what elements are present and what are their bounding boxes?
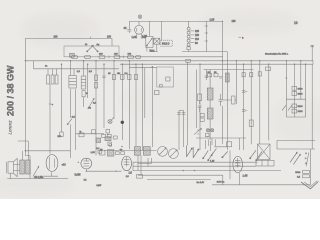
svg-text:Stromlaufplan Nr. 1905 a: Stromlaufplan Nr. 1905 a: [265, 53, 289, 56]
wire rectifier anode drop: [128, 21, 130, 29]
coil IFT2a: [134, 147, 140, 156]
wire column 142: [141, 64, 143, 150]
switch arm d2: [293, 154, 300, 164]
wire column 114: [113, 61, 115, 119]
capacitor bars col104: [102, 76, 105, 78]
svg-text:220: 220: [195, 30, 200, 33]
lamp pair L2: [211, 129, 214, 132]
wire column 96: [95, 61, 97, 156]
wire right terminal drop: [311, 64, 313, 149]
wire column 200: [199, 64, 201, 150]
svg-text:0,5V 2m: 0,5V 2m: [217, 181, 225, 183]
svg-text:0,1W: 0,1W: [97, 185, 102, 187]
svg-text:13: 13: [294, 21, 298, 25]
svg-text:5000: 5000: [298, 89, 304, 91]
lamp above rectifier: [138, 15, 141, 18]
wire column 152: [151, 67, 153, 147]
node dark junction: [121, 121, 124, 124]
wire osc tie: [179, 110, 184, 112]
resistor stack 200a: [200, 114, 204, 117]
wire column 286: [285, 61, 287, 117]
wire bottom L2: [133, 165, 256, 167]
wire column 206 sub: [205, 70, 208, 81]
wire switch feed a: [206, 140, 227, 151]
trimmer osc: [160, 84, 163, 87]
wire mid link: [86, 170, 121, 172]
wire right block top: [277, 139, 315, 141]
wire sub line 67: [129, 67, 157, 69]
wire column 56.5: [56, 69, 58, 75]
svg-text:2000: 2000: [298, 111, 304, 113]
wire switch stub: [147, 44, 157, 51]
wire column 243: [243, 64, 245, 150]
resistor R4: [51, 75, 54, 84]
transformer box Tr: [79, 130, 84, 136]
wire speaker links: [13, 165, 19, 171]
tube U1 rectifier: [135, 21, 144, 38]
lamp symbol X1: [108, 117, 114, 124]
switch pole arm p2: [193, 147, 199, 158]
switch arm band: [67, 119, 72, 125]
resistor col96 b: [94, 83, 97, 89]
resistor R5: [55, 75, 58, 84]
tick c1: [245, 91, 247, 110]
capacitor pair c1: [242, 91, 245, 93]
capacitor C40: [127, 30, 131, 34]
resistor row r2: [107, 134, 111, 137]
resistor row r3: [113, 136, 117, 139]
capacitor col259: [258, 72, 261, 76]
wire tube B bottom: [85, 169, 87, 171]
capacitor left IF: [198, 94, 202, 112]
wire left sub bus: [34, 61, 120, 69]
tuning gang C2: [169, 149, 179, 159]
resistor row r1: [102, 134, 106, 137]
tap 110V: [190, 38, 199, 41]
coil L2 antenna: [69, 76, 76, 89]
switch arm d1: [290, 152, 297, 162]
wire bottom L5: [147, 179, 211, 181]
svg-text:2000: 2000: [298, 94, 304, 96]
svg-text:4M: 4M: [117, 73, 120, 75]
resistor R500: [58, 132, 64, 138]
capacitor C small2: [108, 142, 111, 145]
switch arm b1: [222, 151, 228, 157]
wire heater drop: [205, 21, 209, 51]
wire top right terminal: [311, 45, 314, 61]
capacitor C IF: [219, 94, 223, 106]
potentiometer arrow P1: [84, 97, 95, 107]
resistor R6: [82, 91, 88, 97]
capacitor Cg: [219, 76, 222, 78]
switch arm c2: [256, 151, 262, 160]
transformer output Tr2: [20, 141, 30, 174]
capacitor c40: [108, 73, 116, 80]
wire ballast feed: [188, 21, 190, 27]
svg-text:100: 100: [107, 35, 112, 38]
fuse box F1: [154, 38, 160, 44]
wire mains switch feed: [148, 21, 150, 36]
switch arm c1: [250, 150, 256, 159]
svg-text:2m 2,4V: 2m 2,4V: [197, 182, 205, 184]
coil L3: [81, 76, 86, 89]
resistor r91: [92, 130, 96, 134]
wire column 305: [305, 64, 307, 117]
svg-text:5000: 5000: [295, 172, 301, 174]
wire bottom L4: [138, 174, 223, 176]
tube V2: [81, 158, 92, 169]
wire IF column: [209, 70, 211, 141]
wire L4 end drop: [222, 175, 224, 185]
wire column 187: [186, 62, 188, 145]
potentiometer P3: [194, 128, 201, 134]
resistor R2 on bus: [186, 59, 191, 62]
switch S1 mains: [146, 36, 153, 47]
switch arm d3: [305, 152, 309, 166]
wire tie right low: [286, 116, 305, 118]
svg-text:Lorenz: Lorenz: [8, 120, 13, 135]
svg-text:220: 220: [54, 36, 59, 39]
wire column 48: [47, 69, 49, 75]
capacitor osc: [166, 77, 170, 81]
switch wave band arm 2: [92, 45, 98, 52]
wire tie right mid: [286, 98, 305, 100]
switch cluster arm a1: [203, 151, 209, 159]
wire top supply rail: [129, 20, 223, 22]
switch pole arm p1: [187, 146, 193, 158]
coil L4: [105, 137, 111, 141]
wire column 74: [73, 69, 75, 76]
node tick g1: [109, 56, 124, 58]
wire bottom L6: [212, 184, 310, 186]
switch cluster arm a3: [211, 148, 216, 155]
node antenna tick: [90, 37, 92, 39]
wire mid link drop: [120, 170, 122, 173]
title block text Lorenz: [6, 65, 16, 135]
wire column 52.5: [52, 69, 54, 75]
tap 150V: [190, 34, 199, 37]
wire left bus vertical: [24, 38, 26, 155]
shield box oscillator: [157, 67, 174, 87]
resistor r4M: [117, 73, 124, 80]
wire bottom vert l: [132, 162, 134, 170]
wire column 104: [103, 64, 105, 128]
capacitor c01: [125, 73, 132, 80]
coil pill 6: [136, 55, 141, 58]
switch ticks right top: [282, 105, 292, 110]
resistor RIF: [232, 96, 235, 104]
coil IFT2b: [143, 147, 150, 156]
capacitor block bk: [227, 142, 232, 147]
node j2: [194, 170, 195, 171]
wire main bus 1: [25, 60, 313, 62]
coil L6: [108, 150, 114, 156]
svg-text:4M: 4M: [88, 107, 91, 109]
capacitor bank small: [209, 139, 216, 147]
loudspeaker LS: [7, 158, 18, 176]
wire left bottom: [7, 156, 68, 179]
svg-text:110: 110: [195, 38, 199, 41]
wire column 236: [235, 61, 237, 104]
wire sub bus right: [204, 69, 254, 71]
capacitor box k: [206, 133, 210, 137]
node left tube B: [78, 162, 79, 163]
wire column 144: [144, 68, 146, 118]
svg-text:9012 D: 9012 D: [162, 43, 170, 45]
coil pill 3: [99, 53, 105, 58]
capacitor stack bottom right: [295, 170, 309, 178]
wire fuse feed: [160, 21, 162, 40]
wire antenna into box: [111, 38, 113, 46]
node bus dots: [25, 60, 307, 67]
node left col: [25, 150, 26, 151]
wire column 196: [196, 70, 198, 129]
ground chevron outer: [301, 181, 318, 188]
coil IF1b: [207, 108, 213, 119]
node j1: [183, 170, 184, 171]
svg-text:0,985: 0,985: [75, 174, 82, 177]
wire column 75: [74, 89, 76, 150]
tube V1 output: [46, 155, 58, 172]
box detector: [137, 175, 143, 179]
capacitor stack right 2: [292, 104, 303, 113]
svg-text:150: 150: [195, 34, 200, 37]
wire 133.8: [76, 133, 104, 135]
wire column 251: [250, 61, 252, 145]
ground chevron inner: [304, 181, 317, 187]
socket box X2: [258, 144, 271, 160]
socket box X3: [256, 160, 274, 166]
capacitor osc bars: [177, 113, 185, 115]
coil HF choke: [225, 73, 229, 82]
capacitor row b1: [96, 148, 101, 153]
svg-text:Netz: Netz: [150, 49, 156, 52]
svg-text:150: 150: [232, 20, 237, 23]
node on 171: [115, 171, 116, 172]
wire to output tube grid: [49, 84, 51, 154]
tube V3: [122, 156, 132, 171]
resistor R50: [214, 72, 218, 77]
coil pill 5: [128, 53, 134, 58]
capacitor row b3: [120, 149, 125, 154]
lamp pair L1: [206, 129, 209, 132]
wire B+ drop: [222, 21, 224, 60]
voltage selector box dashed: [161, 40, 172, 46]
svg-text:1,5V: 1,5V: [91, 152, 96, 154]
resistor col251 box: [249, 120, 253, 126]
capacitor col251: [250, 73, 253, 77]
wire bottom L1: [133, 161, 258, 163]
wire tie IF: [223, 99, 237, 101]
wire link row: [104, 149, 156, 151]
wire grid drop tube D: [239, 138, 241, 150]
coil pill 2: [85, 55, 91, 58]
wire transformer to tube: [18, 141, 71, 151]
tap 220V: [190, 30, 199, 33]
label tap a: [239, 36, 245, 39]
capacitor stack right 1: [292, 86, 303, 95]
capacitor pair c2: [242, 110, 245, 112]
wire column 259: [259, 61, 261, 144]
capacitor C big: [100, 149, 106, 155]
svg-text:200 / 38 GW: 200 / 38 GW: [6, 65, 16, 116]
capacitor col243: [242, 73, 245, 77]
node Ia tick: [49, 104, 54, 106]
ballast lamp chain E1: [187, 27, 190, 46]
wire right terminal lower: [310, 149, 312, 185]
resistor stack 200b: [200, 118, 204, 121]
resistor R1M: [207, 72, 211, 77]
trimmer box mid: [155, 91, 160, 95]
wire grid line: [119, 56, 223, 58]
wire column 268: [268, 64, 270, 140]
wire heater line under switch: [150, 51, 228, 53]
wire column 222: [222, 61, 224, 144]
wire column 70.5: [70, 61, 72, 76]
wire column 129: [128, 61, 130, 149]
wire column 122: [121, 64, 123, 140]
wire column 300: [300, 61, 302, 99]
switch cluster arm a2: [208, 153, 214, 161]
wire tube D drop: [239, 173, 241, 185]
pilot circle: [109, 144, 112, 147]
wire main bus 2: [120, 63, 313, 65]
capacitor stack small: [106, 129, 110, 135]
node 142: [142, 67, 143, 68]
wire column 87.7: [87, 64, 89, 98]
svg-text:5000: 5000: [298, 106, 304, 108]
node tube B: [86, 171, 87, 172]
resistor rx: [134, 75, 137, 80]
resistor R3: [47, 75, 50, 84]
svg-text:1,05: 1,05: [132, 36, 137, 39]
node d2: [121, 146, 123, 148]
wire L2 down: [70, 89, 72, 118]
capacitor row b2: [115, 152, 119, 155]
tuning gang C1: [158, 147, 168, 157]
coil pill 4: [114, 53, 120, 58]
wire osc col 183: [183, 111, 185, 148]
coil L5: [96, 138, 101, 143]
wire right block vert: [276, 140, 278, 149]
tap 90V: [190, 42, 198, 45]
node mid right: [286, 77, 288, 79]
wire agc line: [196, 137, 246, 139]
svg-text:+13: +13: [62, 163, 67, 166]
wire osc col 179: [178, 111, 180, 151]
resistor on bus right: [266, 67, 271, 71]
svg-text:Tr: Tr: [79, 130, 81, 133]
wire heater long vertical: [226, 52, 228, 150]
wire tube A bottom: [44, 172, 58, 176]
resistor col96 a: [94, 75, 97, 81]
tube V4: [233, 156, 243, 172]
wire gang drops: [138, 155, 152, 174]
wire antenna line: [25, 37, 112, 39]
svg-text:1,05: 1,05: [210, 19, 215, 22]
wire column 83.5: [83, 61, 85, 76]
wire bottom L3: [133, 170, 281, 172]
wire below arm: [70, 124, 72, 158]
coil pill 1: [72, 55, 78, 58]
wire right block mid: [277, 148, 315, 150]
svg-text:1,4S: 1,4S: [243, 174, 248, 177]
wire column 61.5: [61, 64, 63, 132]
wire 230 drop: [229, 150, 231, 179]
contact ticks: [197, 130, 199, 134]
potentiometer P2: [33, 166, 39, 176]
coil IF1a: [207, 88, 213, 100]
coil box band filter: [64, 46, 119, 57]
switch wave band arm 1: [87, 45, 94, 52]
wire column 294: [293, 64, 295, 117]
coil L1: [70, 53, 75, 57]
wire bus right end tie: [312, 61, 314, 64]
wire column 136: [135, 64, 137, 146]
wire link bottom left: [138, 162, 152, 164]
node supply right: [222, 21, 223, 22]
resistor R ballast lower: [187, 47, 190, 52]
